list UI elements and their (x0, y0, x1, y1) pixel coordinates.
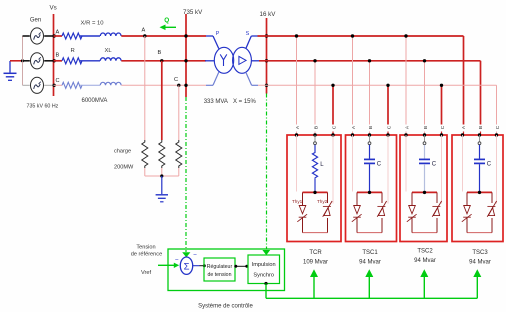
arrow Q (160, 17, 177, 30)
port of TSC2 (423, 135, 426, 145)
svg-text:16 kV: 16 kV (260, 11, 277, 18)
wire firing arrow to TSC2 (420, 269, 428, 298)
label 6000MVA (82, 98, 108, 104)
svg-text:Régulateur: Régulateur (207, 264, 233, 270)
load resistor phase B (159, 140, 165, 176)
valve loop of TCR (303, 191, 328, 233)
wire phase c 16kV (258, 85, 497, 135)
label TCR (303, 250, 328, 265)
thyristor (reverse) of TSC1 (377, 201, 386, 217)
load tap phase A (144, 36, 146, 140)
svg-text:6000MVA: 6000MVA (82, 98, 108, 104)
port of TSC3 (478, 135, 481, 145)
svg-text:C: C (331, 125, 337, 129)
svg-text:B: B (368, 126, 374, 129)
svg-text:X = 15%: X = 15% (233, 99, 257, 105)
svg-text:C: C (56, 78, 60, 84)
wire inside TSC3 from A (462, 135, 464, 192)
inductor XL phase A (100, 33, 206, 36)
load resistor phase C (176, 140, 182, 176)
label Gen (30, 18, 41, 24)
svg-text:109 Mvar: 109 Mvar (303, 259, 328, 265)
wire drop phase b x=369.5 (368, 59, 371, 135)
block Regulateur de tension (204, 258, 235, 281)
svg-text:Q: Q (164, 17, 169, 24)
label 735 kV 60 Hz (27, 104, 59, 110)
wire drop phase b x=315.0 (313, 59, 316, 135)
terminal B of TSC1 (368, 126, 374, 137)
node A (142, 27, 147, 37)
load resistor phase A (142, 140, 148, 176)
bus Vs (50, 5, 57, 97)
svg-text:Tension: Tension (136, 244, 155, 250)
label 333 MVA X = 15% (204, 99, 257, 105)
svg-text:94 Mvar: 94 Mvar (414, 258, 436, 264)
load tap phase B (161, 61, 163, 140)
capacitor C of TSC3 (474, 145, 492, 193)
thyristor (reverse) of TSC2 (432, 201, 441, 217)
node B (source side) (56, 53, 60, 59)
subsystem box TCR (287, 135, 341, 242)
svg-text:Thy2: Thy2 (317, 199, 328, 204)
node C (source side) (56, 78, 60, 84)
terminal C of TSC1 (386, 125, 392, 136)
wire drop phase c x=388.0 (386, 84, 389, 135)
port of TSC1 (368, 135, 371, 145)
svg-text:735 kV 60 Hz: 735 kV 60 Hz (27, 104, 59, 110)
bus B1 735 kV (183, 9, 203, 97)
svg-text:TCR: TCR (309, 250, 322, 256)
terminal A of TCR (295, 125, 301, 137)
transformer T1 winding Y (214, 47, 233, 73)
wire phase b 16kV (259, 61, 481, 135)
resistor R phase B (54, 58, 101, 64)
svg-text:B: B (423, 126, 429, 129)
transformer T1 primary lead A (206, 36, 219, 49)
svg-text:B: B (478, 126, 484, 129)
wire regulator to impulsion (234, 265, 248, 268)
wire neutral bus (22, 36, 24, 85)
inductor L of TCR (312, 145, 324, 193)
terminal B of TCR (313, 126, 319, 137)
ground (source neutral) (4, 61, 17, 80)
svg-text:B: B (56, 53, 60, 59)
svg-text:Vref: Vref (141, 270, 151, 276)
svg-text:Σ: Σ (184, 262, 190, 273)
svg-text:X/R = 10: X/R = 10 (81, 21, 105, 27)
label Systeme de controle (198, 303, 253, 309)
svg-text:R: R (71, 48, 75, 54)
svg-text:−: − (193, 251, 197, 258)
svg-text:333 MVA: 333 MVA (204, 99, 228, 105)
terminal A of TSC1 (351, 125, 357, 137)
wire firing arrow to TSC3 (473, 269, 481, 298)
svg-text:94 Mvar: 94 Mvar (469, 259, 491, 265)
wire drop phase a x=296.5 (295, 34, 298, 135)
svg-text:P: P (216, 31, 220, 37)
label TSC2 (414, 248, 436, 263)
wire drop phase a x=352.5 (351, 34, 354, 135)
svg-text:C: C (495, 125, 501, 129)
svg-text:de référence: de référence (131, 252, 162, 258)
svg-text:C: C (174, 77, 178, 83)
wire drop phase c x=441.5 (440, 84, 443, 135)
subsystem box TSC3 (452, 135, 503, 242)
svg-text:C: C (377, 162, 382, 168)
svg-text:94 Mvar: 94 Mvar (359, 259, 381, 265)
svg-text:S: S (246, 31, 250, 37)
inductor XL phase C (100, 82, 206, 85)
svg-text:A: A (142, 27, 146, 33)
label X/R = 10 (81, 21, 105, 27)
load neutral wire (145, 174, 179, 177)
svg-text:200MW: 200MW (114, 164, 134, 170)
label TSC3 (469, 250, 491, 265)
wire firing bus (264, 282, 477, 298)
svg-text:A: A (56, 30, 60, 36)
label TSC1 (359, 250, 381, 265)
thyristor (forward) of TSC2 (407, 206, 417, 222)
resistor R phase A (54, 33, 101, 39)
valve loop of TSC1 (357, 191, 382, 233)
svg-text:TSC2: TSC2 (417, 248, 433, 254)
wire neutral to ground (10, 59, 24, 62)
bus B2 16 kV (260, 11, 277, 94)
svg-text:B: B (158, 50, 162, 56)
svg-text:de tension: de tension (208, 272, 232, 278)
svg-text:C: C (386, 125, 392, 129)
label R (71, 48, 75, 54)
label XL (105, 48, 113, 54)
wire inside TSC1 from C (387, 135, 389, 204)
inductor XL phase B (100, 58, 206, 61)
terminal A of TSC2 (404, 125, 410, 137)
svg-text:Synchro: Synchro (253, 273, 274, 279)
resistor R phase C (54, 82, 101, 88)
thyristor (forward) of TSC3 (462, 206, 472, 222)
svg-text:Vs: Vs (50, 5, 57, 12)
capacitor C of TSC2 (419, 145, 437, 193)
port of TCR (314, 135, 317, 145)
svg-text:C: C (487, 162, 492, 168)
terminal B of TSC2 (423, 126, 429, 137)
capacitor C of TSC1 (364, 145, 382, 193)
label Tension de reference Vref (131, 244, 162, 275)
label P (216, 31, 220, 37)
measurement line from bus B1 (dashed) (182, 97, 190, 257)
svg-text:C: C (440, 125, 446, 129)
node B (158, 50, 164, 63)
wire summing to regulator (193, 264, 206, 267)
subsystem box TSC2 (400, 135, 447, 242)
thyristor (reverse) of TSC3 (487, 201, 496, 217)
svg-text:TSC1: TSC1 (362, 250, 378, 256)
wire phase a 16kV (258, 36, 464, 135)
node A (source side) (56, 30, 60, 36)
wire firing arrow to TSC1 (365, 269, 373, 298)
terminal A of TSC3 (461, 125, 467, 137)
measurement line from bus B2 (dashed) (262, 94, 270, 256)
node C (174, 77, 181, 87)
svg-text:charge: charge (114, 148, 131, 154)
thyristor Thy2 of TCR (317, 199, 332, 217)
ground (load) (156, 176, 168, 202)
svg-text:Système de contrôle: Système de contrôle (198, 303, 253, 309)
svg-text:XL: XL (105, 48, 113, 54)
terminal C of TSC3 (495, 125, 501, 136)
thyristor (forward) of TSC1 (352, 206, 362, 222)
voltage source Gen phase B (23, 53, 54, 69)
svg-text:Impulsion: Impulsion (252, 262, 276, 268)
wire drop phase b x=424.5 (423, 59, 426, 135)
svg-text:Thy1: Thy1 (292, 199, 303, 204)
wire inside TSC2 from C (441, 135, 443, 204)
svg-text:−: − (175, 257, 179, 264)
block Impulsion Synchro (248, 255, 280, 284)
wire inside TCR from A (296, 135, 298, 192)
valve loop of TSC2 (412, 191, 437, 233)
transformer T1 secondary lead a (246, 36, 258, 49)
wire drop phase a x=406.0 (404, 34, 407, 135)
transformer T1 winding Delta (233, 47, 252, 73)
svg-text:TSC3: TSC3 (472, 250, 488, 256)
voltage source Gen phase C (23, 77, 54, 93)
terminal C of TCR (331, 125, 337, 136)
transformer T1 secondary lead c (246, 72, 258, 85)
wire drop phase c x=333.0 (331, 84, 334, 135)
label charge 200MW (114, 148, 134, 170)
subsystem box TSC1 (346, 135, 397, 242)
valve loop of TSC3 (467, 191, 492, 233)
wire inside TSC3 from C (496, 135, 498, 204)
transformer T1 primary lead B (205, 60, 214, 62)
thyristor Thy1 of TCR (292, 199, 307, 222)
voltage source Gen phase A (23, 28, 54, 44)
transformer T1 primary lead C (206, 72, 219, 85)
control box Systeme de controle (168, 249, 285, 291)
wire firing arrow to TCR (310, 269, 318, 298)
wire inside TCR from C (332, 135, 334, 204)
wire inside TSC1 from A (352, 135, 354, 192)
transformer T1 secondary lead b (251, 60, 259, 62)
svg-text:B: B (313, 126, 319, 129)
label S (246, 31, 250, 37)
load tap phase C (178, 85, 180, 140)
svg-text:C: C (432, 162, 437, 168)
terminal B of TSC3 (478, 126, 484, 137)
terminal C of TSC2 (440, 125, 446, 136)
wire inside TSC2 from A (405, 135, 407, 192)
svg-text:Gen: Gen (30, 18, 41, 24)
summing junction (175, 251, 197, 274)
wire Vref input arrow (158, 263, 179, 268)
